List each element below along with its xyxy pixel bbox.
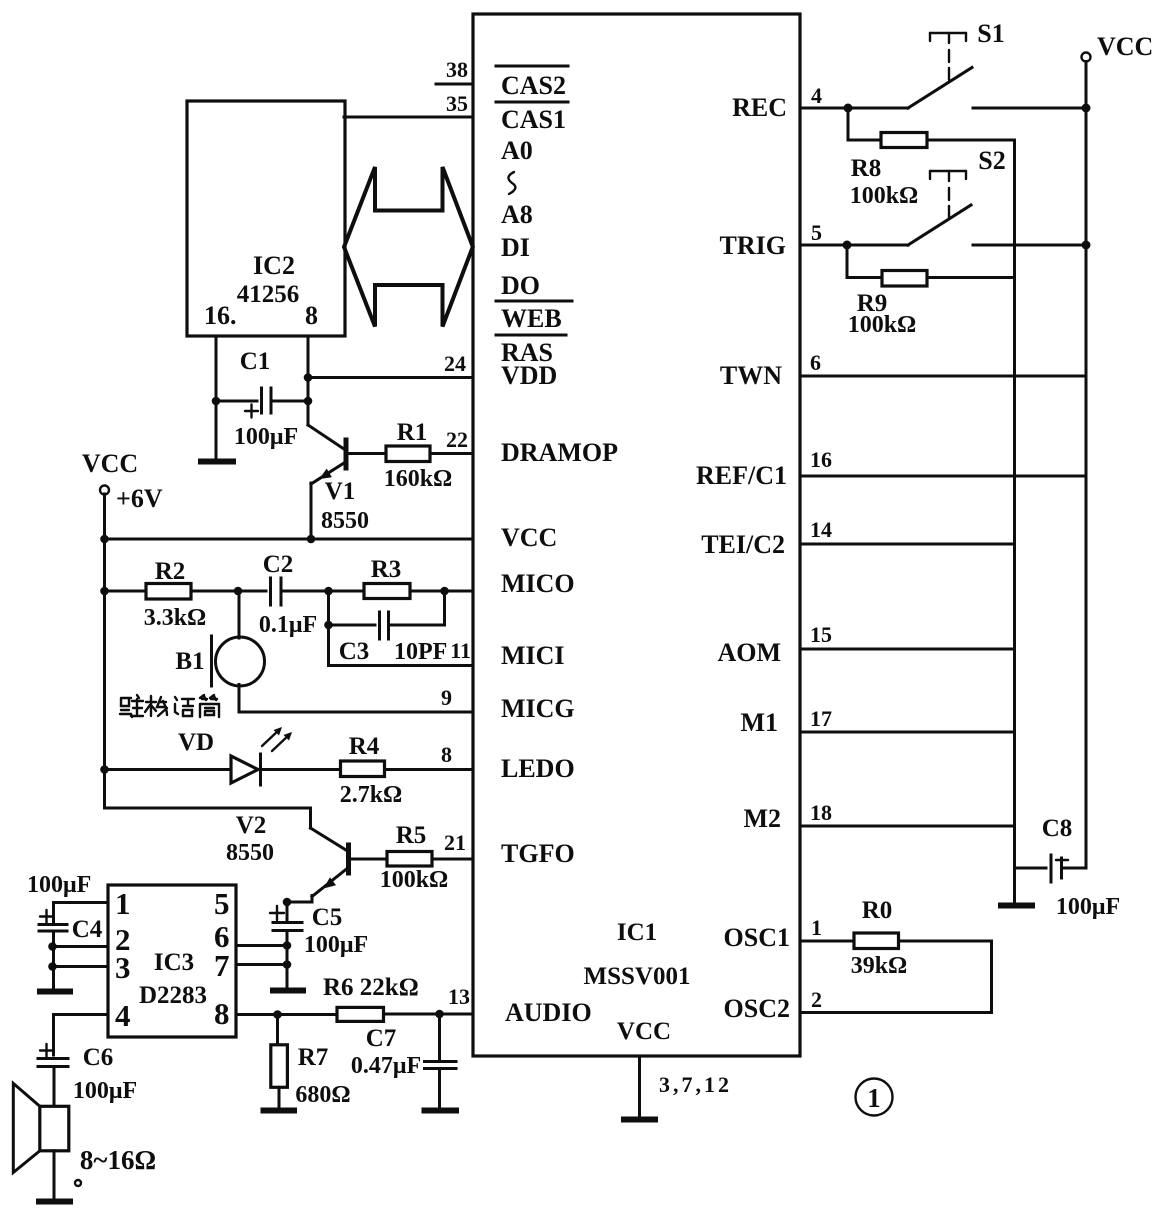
svg-text:M1: M1 <box>740 708 778 737</box>
IC1 label CAS1 pin <box>496 102 568 134</box>
wire VCC vertical right <box>1082 62 1091 869</box>
svg-text:V2: V2 <box>236 812 267 839</box>
svg-text:V1: V1 <box>325 478 356 505</box>
switch S2 <box>908 146 1086 245</box>
svg-text:5: 5 <box>811 220 822 245</box>
wire AOM pin15 <box>800 648 1015 651</box>
resistor R1 160k <box>347 419 473 492</box>
figure number 1 circled <box>856 1079 893 1116</box>
svg-text:8: 8 <box>305 301 318 330</box>
svg-text:2: 2 <box>811 987 822 1012</box>
resistor R7 680 <box>271 1015 351 1110</box>
svg-text:100μF: 100μF <box>27 872 91 898</box>
svg-text:DI: DI <box>501 233 530 262</box>
svg-text:8~16Ω: 8~16Ω <box>80 1145 156 1175</box>
ground IC1 pins 3,7,12 <box>624 1117 655 1123</box>
svg-text:OSC1: OSC1 <box>724 923 790 952</box>
svg-text:21: 21 <box>444 830 466 855</box>
svg-text:100kΩ: 100kΩ <box>850 183 919 209</box>
svg-text:B1: B1 <box>175 648 204 675</box>
svg-text:C8: C8 <box>1042 815 1073 842</box>
svg-text:160kΩ: 160kΩ <box>384 466 453 492</box>
wire pin 38 stub <box>436 83 473 86</box>
label zhu ji hua tong (electret microphone) hanzi <box>120 695 219 717</box>
svg-text:C3: C3 <box>339 638 370 665</box>
svg-text:R6 22kΩ: R6 22kΩ <box>323 974 419 1001</box>
svg-text:TRIG: TRIG <box>720 231 786 260</box>
svg-text:A0: A0 <box>501 136 533 165</box>
wire M2 pin18 <box>800 825 1015 828</box>
svg-text:9: 9 <box>441 685 452 710</box>
svg-text:1: 1 <box>811 915 822 940</box>
VCC terminal top right <box>1082 32 1154 62</box>
wire IC3 pin4 <box>54 1015 109 1056</box>
svg-text:R1: R1 <box>397 419 428 446</box>
svg-text:R3: R3 <box>371 556 402 583</box>
svg-text:1: 1 <box>867 1083 881 1113</box>
capacitor C5 100uF <box>270 898 368 989</box>
wire TRIG pin5 <box>800 241 908 250</box>
svg-text:TEI/C2: TEI/C2 <box>701 530 785 559</box>
capacitor C4 100uF <box>27 872 103 990</box>
svg-text:WEB: WEB <box>501 304 562 333</box>
svg-text:LEDO: LEDO <box>501 754 575 783</box>
wire IC3 pin6 <box>236 944 287 947</box>
svg-text:MICG: MICG <box>501 694 575 723</box>
svg-text:41256: 41256 <box>237 281 300 308</box>
wire IC2 pin16 lead <box>215 336 218 460</box>
IC1 label CAS2 pin <box>496 66 568 100</box>
svg-text:C4: C4 <box>72 916 103 943</box>
LED VD diode <box>100 727 292 785</box>
svg-text:14: 14 <box>810 517 832 542</box>
wire left VCC rail <box>100 494 473 808</box>
svg-text:R8: R8 <box>851 155 882 182</box>
svg-text:6: 6 <box>810 350 821 375</box>
switch S1 <box>908 19 1086 108</box>
svg-text:D2283: D2283 <box>139 982 207 1009</box>
ground speaker <box>39 1199 70 1205</box>
svg-text:MICO: MICO <box>501 569 575 598</box>
ground C4 <box>40 989 70 995</box>
svg-text:IC1: IC1 <box>617 919 657 946</box>
IC2 41256 body <box>187 101 345 336</box>
svg-text:100kΩ: 100kΩ <box>380 867 449 893</box>
wire TEI/C2 pin14 <box>800 543 1015 546</box>
svg-text:VCC: VCC <box>617 1018 671 1045</box>
svg-text:S2: S2 <box>978 146 1005 175</box>
svg-text:2.7kΩ: 2.7kΩ <box>340 782 403 808</box>
wire IC1 ground stem <box>638 1056 641 1118</box>
ground C7 <box>425 1108 457 1114</box>
svg-text:C5: C5 <box>312 904 343 931</box>
svg-text:8550: 8550 <box>226 840 274 866</box>
svg-text:IC3: IC3 <box>154 949 194 976</box>
IC1 label WEB pin <box>496 301 572 333</box>
svg-text:11: 11 <box>450 638 471 663</box>
ground R7 <box>264 1108 295 1114</box>
wire IC3 pin8 AUDIO row <box>236 1010 337 1019</box>
svg-text:8: 8 <box>441 742 452 767</box>
IC3 D2283 body <box>108 885 236 1037</box>
wire IC3 pin7 <box>236 963 287 966</box>
svg-text:DRAMOP: DRAMOP <box>501 438 618 467</box>
svg-text:17: 17 <box>810 706 832 731</box>
svg-text:8550: 8550 <box>321 508 369 534</box>
svg-text:13: 13 <box>448 984 470 1009</box>
svg-text:1: 1 <box>115 886 131 921</box>
svg-text:4: 4 <box>115 998 131 1033</box>
svg-text:+6V: +6V <box>116 484 163 513</box>
svg-text:7: 7 <box>214 948 230 983</box>
svg-text:VCC: VCC <box>501 523 557 552</box>
svg-text:CAS2: CAS2 <box>501 71 566 100</box>
svg-text:680Ω: 680Ω <box>295 1082 350 1108</box>
svg-text:C6: C6 <box>83 1044 114 1071</box>
svg-text:M2: M2 <box>743 804 781 833</box>
svg-text:A8: A8 <box>501 200 533 229</box>
svg-text:8: 8 <box>214 996 230 1031</box>
svg-text:39kΩ: 39kΩ <box>851 953 908 979</box>
svg-text:R0: R0 <box>862 897 893 924</box>
svg-text:16: 16 <box>810 447 832 472</box>
svg-text:VDD: VDD <box>501 361 557 390</box>
capacitor C6 100uF <box>38 1044 137 1106</box>
svg-text:10PF: 10PF <box>394 639 447 665</box>
svg-text:C7: C7 <box>366 1025 397 1052</box>
svg-text:3,7,12: 3,7,12 <box>659 1072 732 1097</box>
wire TWN pin6 <box>800 375 1086 378</box>
svg-text:R2: R2 <box>155 558 186 585</box>
transistor V2 8550 <box>105 808 349 902</box>
svg-text:18: 18 <box>810 800 832 825</box>
capacitor C3 10PF <box>324 591 447 666</box>
wire IC3 pin3 <box>52 965 108 968</box>
wire REC pin4 <box>800 104 908 113</box>
resistor R8 100k <box>848 108 1015 209</box>
svg-text:R4: R4 <box>349 733 380 760</box>
svg-text:100μF: 100μF <box>1056 894 1120 920</box>
wire MICG pin 9 <box>239 711 473 714</box>
capacitor C2 0.1uF <box>238 551 329 638</box>
IC1 label RAS pin <box>496 335 566 367</box>
svg-text:S1: S1 <box>977 19 1004 48</box>
ground C8 <box>1001 903 1032 909</box>
svg-text:100μF: 100μF <box>234 424 298 450</box>
svg-text:DO: DO <box>501 271 540 300</box>
svg-text:22: 22 <box>446 427 468 452</box>
resistor R2 3.3k <box>100 558 242 631</box>
IC1 label tilde A0..A8 <box>508 172 515 194</box>
wire IC2 pin8 / VDD node vertical <box>212 336 313 425</box>
svg-text:IC2: IC2 <box>253 251 295 280</box>
svg-text:MSSV001: MSSV001 <box>584 963 691 990</box>
svg-text:0.47μF: 0.47μF <box>351 1053 421 1079</box>
resistor R4 2.7k <box>261 733 474 808</box>
wire pin 24 VDD <box>308 376 473 379</box>
resistor R6 22k <box>323 974 473 1021</box>
svg-text:38: 38 <box>446 57 468 82</box>
svg-text:4: 4 <box>811 83 822 108</box>
svg-text:CAS1: CAS1 <box>501 105 566 134</box>
svg-text:15: 15 <box>810 622 832 647</box>
svg-text:3: 3 <box>115 950 131 985</box>
svg-text:VCC: VCC <box>1097 32 1153 61</box>
svg-text:TWN: TWN <box>720 361 782 390</box>
svg-text:C2: C2 <box>263 551 294 578</box>
svg-text:TGFO: TGFO <box>501 839 575 868</box>
svg-text:VD: VD <box>178 729 214 756</box>
resistor R0 39k <box>800 897 992 1013</box>
svg-text:100μF: 100μF <box>304 932 368 958</box>
svg-text:R7: R7 <box>298 1044 329 1071</box>
ground IC2 pin16 <box>201 459 233 465</box>
wire IC3 pin1 <box>54 903 109 923</box>
svg-text:OSC2: OSC2 <box>724 994 790 1023</box>
capacitor C1 100uF <box>216 348 308 450</box>
VCC terminal +6V left <box>82 449 163 513</box>
svg-text:0.1μF: 0.1μF <box>259 612 317 638</box>
capacitor C8 100uF <box>1015 815 1121 920</box>
wire OSC2 pin2 <box>800 1011 992 1014</box>
wire MICI pin 11 <box>329 664 474 667</box>
svg-text:AUDIO: AUDIO <box>505 998 592 1027</box>
svg-text:24: 24 <box>444 351 466 376</box>
svg-text:REF/C1: REF/C1 <box>696 461 787 490</box>
svg-text:R5: R5 <box>396 822 427 849</box>
bus arrow between IC2 and IC1 <box>344 167 473 327</box>
svg-text:35: 35 <box>446 91 468 116</box>
ground C5 <box>273 988 303 994</box>
svg-text:100μF: 100μF <box>73 1078 137 1104</box>
svg-text:3.3kΩ: 3.3kΩ <box>144 605 207 631</box>
svg-text:REC: REC <box>732 93 787 122</box>
microphone B1 electret <box>175 591 264 712</box>
resistor R9 100k <box>847 245 1015 338</box>
wire REF/C1 pin16 <box>800 475 1086 478</box>
svg-text:5: 5 <box>214 886 230 921</box>
svg-text:VCC: VCC <box>82 449 138 478</box>
svg-text:AOM: AOM <box>717 638 781 667</box>
capacitor C7 0.47uF <box>351 1014 456 1109</box>
wire IC3 pin2 <box>52 945 108 948</box>
resistor R3 <box>324 556 473 599</box>
speaker 8-16 ohm <box>13 1083 156 1200</box>
wire M1 pin17 <box>800 731 1015 734</box>
svg-text:100kΩ: 100kΩ <box>848 312 917 338</box>
wire pin 35 CAS1 to IC2 <box>344 116 473 119</box>
resistor R5 100k <box>350 822 473 893</box>
svg-text:16.: 16. <box>204 301 237 330</box>
IC1 MSSV001 body <box>473 14 800 1056</box>
svg-text:C1: C1 <box>240 348 271 375</box>
wire R8/R9 bus vertical <box>1013 140 1016 901</box>
svg-text:MICI: MICI <box>501 641 565 670</box>
transistor V1 8550 <box>308 425 369 539</box>
